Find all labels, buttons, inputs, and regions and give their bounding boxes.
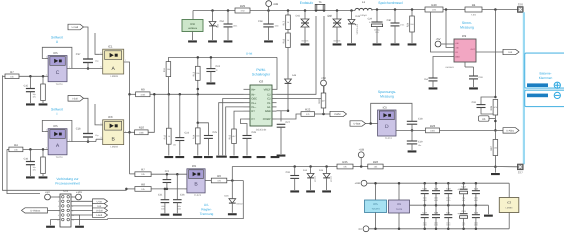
svg-text:R18: R18 [283, 39, 286, 44]
svg-text:R49: R49 [431, 4, 436, 7]
svg-text:47k: 47k [306, 113, 310, 115]
svg-text:C18: C18 [418, 118, 423, 121]
svg-text:100n: 100n [423, 197, 427, 199]
svg-text:100n: 100n [434, 222, 438, 224]
svg-text:SMD: SMD [434, 199, 438, 201]
svg-text:R7: R7 [141, 168, 145, 171]
svg-text:7,5m: 7,5m [471, 14, 476, 16]
svg-text:C40: C40 [446, 188, 450, 190]
svg-text:C17: C17 [76, 53, 81, 56]
svg-text:3: 3 [46, 147, 47, 149]
svg-text:SMD: SMD [446, 224, 450, 226]
svg-text:10µ: 10µ [95, 60, 98, 62]
svg-text:R4: R4 [14, 144, 18, 147]
svg-text:IC3: IC3 [108, 116, 112, 119]
svg-text:15k: 15k [196, 73, 199, 75]
svg-text:A: A [112, 66, 116, 72]
svg-text:4k7: 4k7 [232, 135, 235, 137]
svg-text:1: 1 [69, 66, 70, 68]
svg-text:TL074: TL074 [56, 83, 63, 86]
svg-text:SMD: SMD [446, 199, 450, 201]
svg-text:SMD: SMD [474, 224, 478, 226]
svg-text:7: 7 [125, 60, 126, 62]
svg-text:C15: C15 [24, 84, 29, 87]
svg-text:D: D [385, 124, 389, 130]
svg-text:PWM-: PWM- [256, 68, 265, 72]
svg-text:470n: 470n [400, 24, 404, 26]
svg-text:ST8: ST8 [63, 190, 68, 193]
svg-text:R13: R13 [193, 72, 196, 77]
svg-text:16V: 16V [33, 169, 36, 171]
svg-text:C21: C21 [158, 193, 163, 196]
svg-text:IN–: IN– [251, 93, 255, 96]
svg-text:C23: C23 [185, 132, 190, 135]
svg-text:10µ: 10µ [95, 134, 98, 136]
svg-text:IC3: IC3 [507, 201, 511, 204]
svg-text:C27: C27 [286, 121, 291, 124]
svg-text:R11: R11 [163, 68, 166, 72]
svg-text:10m: 10m [432, 9, 436, 11]
svg-text:100n: 100n [275, 25, 279, 27]
svg-text:C26: C26 [180, 193, 185, 196]
svg-text:R17: R17 [283, 21, 286, 26]
svg-text:GND: GND [265, 110, 271, 113]
svg-text:D41: D41 [296, 15, 301, 18]
svg-text:D16: D16 [224, 195, 228, 197]
svg-text:R6: R6 [217, 175, 221, 178]
svg-text:4k7: 4k7 [322, 100, 325, 102]
svg-text:C30: C30 [387, 19, 392, 22]
svg-text:VREF: VREF [264, 88, 271, 91]
svg-text:C52: C52 [220, 20, 225, 23]
svg-text:Sollwert: Sollwert [51, 36, 63, 40]
svg-text:IC6: IC6 [397, 203, 401, 206]
svg-text:COMP: COMP [263, 118, 271, 121]
svg-text:IC5: IC5 [192, 165, 196, 168]
svg-text:SMD: SMD [474, 199, 478, 201]
svg-text:E2: E2 [267, 93, 270, 96]
svg-text:CT: CT [251, 118, 254, 121]
svg-text:100k: 100k [430, 130, 435, 132]
svg-text:R7: R7 [10, 71, 14, 74]
svg-text:Messung: Messung [380, 95, 394, 99]
svg-text:D14: D14 [303, 169, 307, 171]
svg-text:BAT43: BAT43 [237, 203, 243, 205]
svg-text:U-I-Mess: U-I-Mess [30, 209, 40, 212]
svg-text:LL4148: LL4148 [314, 176, 316, 182]
svg-text:100n: 100n [177, 206, 181, 208]
svg-text:U-Ist: U-Ist [97, 200, 102, 203]
svg-text:+UB: +UB [273, 3, 279, 6]
svg-text:1k: 1k [287, 39, 289, 41]
svg-text:+5V: +5V [435, 38, 440, 41]
svg-text:IC5: IC5 [53, 52, 57, 55]
svg-text:SMD: SMD [423, 224, 427, 226]
svg-text:D49: D49 [292, 74, 296, 76]
svg-text:C2: C2 [267, 98, 270, 101]
svg-text:+: + [457, 188, 459, 191]
svg-text:47k: 47k [217, 180, 221, 182]
svg-text:CL–: CL– [251, 106, 256, 109]
svg-text:TLC274: TLC274 [372, 208, 380, 210]
svg-text:R19: R19 [318, 99, 321, 104]
svg-text:+5V: +5V [321, 77, 326, 80]
svg-text:100n: 100n [446, 222, 450, 224]
svg-text:C36: C36 [423, 188, 427, 190]
svg-text:C37: C37 [423, 212, 427, 214]
svg-text:STPS15L45: STPS15L45 [356, 24, 358, 34]
svg-text:C28: C28 [258, 20, 263, 23]
svg-text:I: I [57, 112, 58, 116]
svg-text:C41: C41 [446, 212, 450, 214]
svg-text:Verbindung zur: Verbindung zur [56, 177, 78, 181]
svg-text:U-Soll: U-Soll [72, 26, 79, 29]
svg-text:Speicherdrossel: Speicherdrossel [378, 1, 402, 5]
svg-text:C31: C31 [472, 101, 477, 104]
svg-text:R23: R23 [430, 125, 435, 128]
svg-text:U-Ist: U-Ist [246, 52, 252, 55]
svg-text:C39: C39 [434, 212, 438, 214]
svg-text:Regler-: Regler- [201, 208, 211, 212]
svg-text:10k: 10k [10, 76, 14, 78]
svg-text:C18: C18 [76, 127, 81, 130]
svg-text:R10: R10 [139, 126, 144, 129]
svg-text:1k: 1k [168, 135, 170, 137]
svg-text:GND: GND [455, 56, 459, 58]
svg-text:D42: D42 [328, 15, 333, 18]
svg-text:ST6: ST6 [518, 3, 523, 6]
svg-text:R27: R27 [490, 146, 493, 151]
svg-text:10µ: 10µ [462, 197, 465, 199]
svg-text:47Ω: 47Ω [240, 10, 244, 12]
svg-text:Trennung: Trennung [200, 212, 214, 216]
svg-text:D15: D15 [319, 169, 323, 171]
svg-text:+5V: +5V [45, 191, 50, 194]
svg-text:A: A [56, 143, 60, 149]
svg-text:C54: C54 [424, 78, 428, 80]
svg-text:IC9: IC9 [462, 35, 466, 38]
svg-text:C16: C16 [24, 157, 29, 160]
svg-text:Klemmen: Klemmen [539, 76, 553, 80]
svg-text:I-Ist: I-Ist [97, 205, 101, 208]
svg-text:IC1: IC1 [108, 45, 112, 48]
svg-text:LL4148: LL4148 [330, 176, 332, 182]
svg-text:IC8: IC8 [190, 23, 194, 26]
svg-text:C22: C22 [165, 170, 170, 173]
svg-text:+IN: +IN [455, 42, 458, 44]
svg-text:IC5: IC5 [373, 203, 377, 206]
svg-text:Spannungs-: Spannungs- [378, 90, 396, 94]
svg-text:R26: R26 [373, 161, 378, 164]
svg-text:B: B [194, 182, 198, 188]
svg-text:–IN: –IN [455, 47, 458, 49]
svg-text:C: C [56, 70, 60, 76]
svg-text:25V: 25V [462, 199, 465, 201]
svg-text:U: U [56, 40, 58, 44]
svg-text:TL074: TL074 [385, 137, 392, 140]
svg-text:5: 5 [58, 205, 59, 207]
svg-text:6: 6 [101, 52, 102, 54]
svg-text:10k: 10k [374, 166, 378, 168]
svg-text:ZPD: ZPD [216, 24, 218, 28]
svg-text:B: B [112, 137, 116, 143]
svg-text:+: + [369, 21, 371, 24]
svg-text:R9: R9 [141, 88, 145, 91]
svg-text:VS: VS [455, 51, 458, 53]
svg-text:10k: 10k [14, 149, 18, 151]
svg-text:Schaltregler: Schaltregler [252, 73, 270, 77]
svg-text:+UB: +UB [355, 182, 360, 185]
svg-text:100k: 100k [140, 94, 145, 96]
svg-text:C26: C26 [252, 131, 257, 134]
svg-text:LMP8601: LMP8601 [445, 66, 454, 68]
svg-text:Strom-: Strom- [462, 21, 472, 25]
svg-text:Sollwert: Sollwert [51, 108, 63, 112]
svg-text:C34: C34 [479, 76, 483, 78]
svg-text:2: 2 [46, 56, 47, 58]
svg-text:R29: R29 [240, 5, 245, 8]
svg-text:C45: C45 [474, 212, 478, 214]
svg-text:SMD: SMD [177, 208, 181, 210]
svg-text:LM285LM: LM285LM [188, 27, 197, 29]
svg-text:R4: R4 [472, 4, 476, 7]
svg-text:Messung: Messung [460, 26, 474, 30]
svg-text:10k: 10k [141, 188, 145, 190]
svg-text:5: 5 [101, 66, 102, 68]
svg-text:TL074: TL074 [56, 156, 63, 159]
svg-text:Prozessoreinheit: Prozessoreinheit [55, 182, 80, 186]
svg-text:SMD: SMD [434, 224, 438, 226]
svg-text:3: 3 [101, 137, 102, 139]
svg-text:+15V: +15V [76, 191, 82, 194]
svg-text:C24: C24 [216, 65, 221, 68]
svg-text:IC6: IC6 [259, 80, 263, 83]
svg-text:R28: R28 [490, 106, 493, 111]
svg-text:C31: C31 [286, 171, 291, 174]
svg-text:Endstufe: Endstufe [300, 1, 314, 5]
svg-text:1k: 1k [287, 21, 289, 23]
svg-text:Batterie-: Batterie- [539, 72, 551, 76]
svg-text:ST7: ST7 [518, 171, 523, 174]
svg-text:C25: C25 [213, 131, 218, 134]
svg-text:100n: 100n [474, 222, 478, 224]
svg-text:100n: 100n [474, 197, 478, 199]
svg-text:1: 1 [125, 130, 126, 132]
svg-text:100n: 100n [446, 197, 450, 199]
svg-text:R25: R25 [342, 161, 347, 164]
svg-text:2: 2 [46, 129, 47, 131]
svg-text:C19: C19 [418, 141, 423, 144]
svg-text:9: 9 [58, 215, 59, 217]
svg-text:SMD: SMD [423, 199, 427, 201]
svg-text:LM393: LM393 [111, 145, 118, 148]
svg-text:R8: R8 [141, 183, 145, 186]
svg-text:I-Ist: I-Ist [508, 51, 512, 54]
svg-text:R15: R15 [229, 135, 232, 140]
svg-text:U-Soll: U-Soll [96, 209, 103, 212]
svg-text:IC5: IC5 [53, 125, 57, 128]
svg-text:10k: 10k [494, 147, 497, 149]
svg-text:+: + [457, 213, 459, 216]
svg-text:TL074: TL074 [396, 208, 402, 210]
svg-text:3: 3 [58, 201, 59, 203]
svg-text:I-Soll: I-Soll [96, 214, 101, 217]
svg-text:TL074: TL074 [194, 194, 201, 197]
svg-text:1µ: 1µ [216, 69, 218, 71]
svg-text:16V: 16V [33, 96, 36, 98]
svg-text:1k5: 1k5 [196, 135, 199, 137]
svg-text:100n: 100n [423, 222, 427, 224]
svg-text:0V: 0V [359, 228, 362, 231]
svg-text:U-Batt: U-Batt [354, 123, 361, 126]
svg-text:2: 2 [101, 123, 102, 125]
svg-text:10n: 10n [418, 144, 421, 146]
svg-text:10k: 10k [141, 173, 145, 175]
svg-text:IN+: IN+ [251, 88, 255, 91]
svg-text:T1: T1 [318, 1, 321, 4]
svg-text:SMD: SMD [161, 208, 165, 210]
svg-text:25V: 25V [462, 224, 465, 226]
svg-text:+UB: +UB [358, 148, 364, 151]
svg-text:RT: RT [251, 110, 254, 113]
svg-text:100n: 100n [161, 206, 165, 208]
svg-text:C1: C1 [267, 102, 270, 105]
svg-text:C44: C44 [474, 188, 478, 190]
svg-text:U-Akku: U-Akku [506, 129, 514, 132]
svg-text:L1: L1 [362, 1, 365, 4]
svg-text:E1: E1 [267, 106, 270, 109]
svg-text:100µH: 100µH [360, 14, 367, 16]
svg-text:R14: R14 [193, 135, 196, 140]
svg-text:100n: 100n [233, 25, 237, 27]
svg-text:10µ: 10µ [33, 93, 36, 95]
svg-text:PWM: PWM [335, 113, 341, 116]
svg-text:U/I-: U/I- [204, 203, 209, 207]
svg-text:OUT: OUT [471, 48, 475, 50]
svg-text:R22: R22 [305, 108, 310, 111]
svg-text:LM393: LM393 [506, 207, 513, 209]
svg-text:C29: C29 [368, 18, 373, 21]
svg-text:LM393: LM393 [111, 75, 118, 78]
svg-text:D43: D43 [356, 15, 361, 18]
svg-text:C38: C38 [434, 188, 438, 190]
svg-text:OSC: OSC [251, 98, 257, 101]
svg-text:I-Soll: I-Soll [72, 97, 77, 100]
svg-text:10n: 10n [173, 144, 176, 146]
svg-text:10µ: 10µ [462, 222, 465, 224]
svg-text:Ub: Ub [482, 118, 485, 121]
svg-text:3: 3 [46, 74, 47, 76]
svg-text:15k: 15k [167, 68, 170, 70]
svg-text:CL+: CL+ [251, 102, 256, 105]
svg-text:100k: 100k [139, 132, 144, 134]
svg-text:C43: C43 [462, 210, 466, 212]
svg-text:1: 1 [69, 139, 70, 141]
svg-text:IC5: IC5 [383, 106, 387, 109]
svg-text:R12: R12 [164, 135, 167, 140]
svg-text:47k: 47k [343, 166, 347, 168]
svg-text:SG3524N: SG3524N [256, 129, 267, 132]
svg-text:C42: C42 [462, 186, 466, 188]
svg-text:10µ: 10µ [33, 166, 36, 168]
svg-text:R24: R24 [407, 23, 410, 28]
svg-text:1k5: 1k5 [410, 23, 413, 25]
svg-text:47k: 47k [494, 106, 497, 108]
svg-text:100n: 100n [434, 197, 438, 199]
